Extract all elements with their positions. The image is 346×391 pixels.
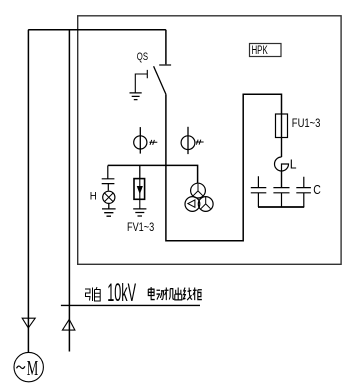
lamp branch: coupling capacitor xyxy=(102,166,115,191)
wire: left riser to motor xyxy=(27,30,29,353)
surge arrester FV1~3 body xyxy=(134,179,145,200)
note text: 电 xyxy=(148,287,154,300)
wye mark top winding xyxy=(193,184,203,196)
delta mark left winding xyxy=(188,200,195,207)
note text: 柜 xyxy=(193,288,202,301)
instrument circle 1 (live-line indicator) xyxy=(139,127,141,154)
svg-text:FU1~3: FU1~3 xyxy=(292,116,321,130)
capacitor left phase xyxy=(251,176,266,207)
wire: incoming feeder bus (horizontal) xyxy=(28,29,166,31)
svg-text:HPK: HPK xyxy=(252,45,268,57)
wire: QS top lead xyxy=(165,30,167,65)
svg-text:C: C xyxy=(313,183,321,197)
instrument circle 2 (live-line indicator) xyxy=(187,127,189,154)
ground (arrester) xyxy=(133,209,146,216)
svg-text:M: M xyxy=(27,356,39,380)
surge arrester arrow xyxy=(139,179,141,200)
wire: second riser xyxy=(68,30,70,352)
svg-text:L: L xyxy=(290,156,297,171)
arrester lead to ground xyxy=(139,199,141,209)
motor label ~ xyxy=(17,366,25,368)
capacitor neutral bus xyxy=(258,206,304,208)
capacitor right phase xyxy=(296,177,311,207)
ground (lamp) xyxy=(102,209,116,216)
main wire: QS to capacitor cabinet loop xyxy=(166,94,282,241)
wye mark right winding xyxy=(201,197,211,209)
svg-text:FV1~3: FV1~3 xyxy=(127,220,154,234)
earthing switch arm xyxy=(135,70,147,93)
note text: 自 xyxy=(95,287,101,301)
svg-text:QS: QS xyxy=(137,51,148,63)
marking hash 2 xyxy=(196,140,204,145)
capacitor middle phase xyxy=(273,188,289,207)
note text: 出 xyxy=(175,288,182,300)
note underline xyxy=(61,304,200,306)
cabinet outline (outer frame) xyxy=(78,16,341,264)
marking hash 1 xyxy=(149,140,157,145)
lamp H xyxy=(103,191,115,203)
voltage transformer (3 windings) xyxy=(191,183,206,198)
reactor lead to capacitor xyxy=(281,171,283,188)
label HPK box xyxy=(250,44,282,57)
note text: 线 xyxy=(183,288,192,301)
reactor L xyxy=(275,157,289,171)
note text: 机 xyxy=(165,288,175,301)
fuse FU1~3 xyxy=(276,114,288,138)
branch bus with drop to voltage transformer xyxy=(108,165,198,183)
surge arrester FV1~3 lead xyxy=(139,165,141,178)
disconnector QS blade xyxy=(154,66,166,94)
cable termination (down triangle) on motor feeder xyxy=(22,318,35,328)
note text: 动 xyxy=(156,290,163,299)
disconnector QS fixed contact bar xyxy=(159,64,171,66)
cable termination (up triangle) on second riser xyxy=(62,319,75,330)
ground (earthing switch) xyxy=(130,93,142,100)
svg-text:10kV: 10kV xyxy=(107,279,136,307)
svg-text:H: H xyxy=(90,191,97,203)
note text: 引 xyxy=(85,288,93,302)
lamp lead xyxy=(108,203,110,209)
motor M xyxy=(14,352,43,381)
